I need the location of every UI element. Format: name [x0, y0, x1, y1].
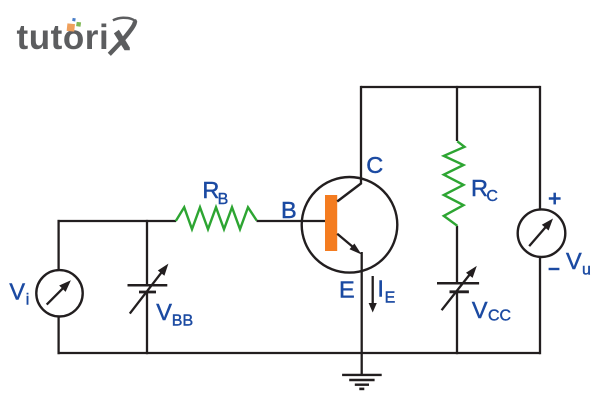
meter Vu circle — [518, 209, 566, 257]
current IE arrow — [369, 276, 377, 313]
source VBB battery plates — [128, 285, 168, 292]
source VCC adjust arrow — [442, 266, 477, 310]
wire Vu branch top vertical — [539, 86, 541, 210]
wire VCC bottom vertical — [456, 292, 458, 354]
svg-text:i: i — [26, 291, 30, 308]
wire Vi bottom vertical — [57, 316, 59, 354]
node C label — [366, 152, 383, 178]
wire VBB bottom vertical — [146, 292, 148, 354]
source Vi circle — [36, 270, 82, 316]
meter Vu minus sign — [549, 268, 560, 270]
wire collector vertical — [360, 86, 362, 184]
svg-text:B: B — [281, 197, 297, 223]
current IE label — [377, 276, 395, 307]
wire Vu bottom vertical — [539, 257, 541, 354]
logo blue square — [72, 18, 76, 22]
wire RC branch top stub — [456, 86, 458, 141]
wire bottom rail — [58, 352, 541, 354]
wire base from RB to transistor — [257, 220, 326, 222]
node B label — [281, 197, 297, 223]
svg-text:u: u — [582, 261, 591, 278]
svg-text:BB: BB — [172, 312, 193, 329]
svg-text:I: I — [377, 276, 384, 302]
source VCC label — [472, 297, 511, 324]
node E label — [339, 277, 355, 303]
wire RC bottom vertical — [456, 226, 458, 283]
wire Vi top vertical — [57, 220, 59, 271]
transistor Q1 circle — [302, 177, 398, 273]
transistor emitter line with arrow — [337, 234, 361, 255]
svg-text:B: B — [218, 191, 229, 208]
resistor RC label — [471, 175, 498, 205]
svg-text:V: V — [9, 279, 25, 305]
source VBB adjust arrow — [130, 264, 169, 314]
svg-text:V: V — [472, 297, 488, 323]
transistor base bar — [325, 195, 337, 251]
meter Vu label — [566, 248, 591, 278]
resistor RB label — [202, 177, 228, 208]
wire VBB top vertical — [146, 220, 148, 285]
wire input top horizontal — [58, 220, 177, 222]
svg-text:E: E — [385, 289, 396, 306]
meter Vu arrow — [529, 219, 553, 247]
logo orange square — [67, 23, 75, 31]
resistor RB zigzag — [176, 207, 257, 229]
svg-text:tutori: tutori — [17, 18, 110, 57]
source VCC battery plates — [437, 283, 479, 292]
logo tutorix wordmark — [17, 18, 110, 57]
resistor RC zigzag — [444, 141, 465, 226]
source VBB label — [156, 299, 193, 329]
svg-text:V: V — [156, 299, 172, 325]
svg-text:E: E — [339, 277, 355, 303]
wire top rail — [361, 86, 540, 88]
logo green square — [76, 22, 81, 27]
svg-text:CC: CC — [488, 308, 511, 325]
svg-text:C: C — [486, 188, 498, 205]
svg-text:C: C — [366, 152, 383, 178]
transistor collector line — [337, 183, 361, 202]
svg-text:V: V — [566, 248, 582, 274]
ground symbol — [342, 375, 382, 389]
wire emitter vertical — [361, 252, 363, 353]
logo x swoosh — [109, 18, 136, 55]
source Vi arrow — [47, 280, 71, 304]
wire ground stub — [361, 353, 363, 375]
meter Vu plus sign — [549, 193, 561, 205]
source Vi label — [9, 279, 29, 309]
